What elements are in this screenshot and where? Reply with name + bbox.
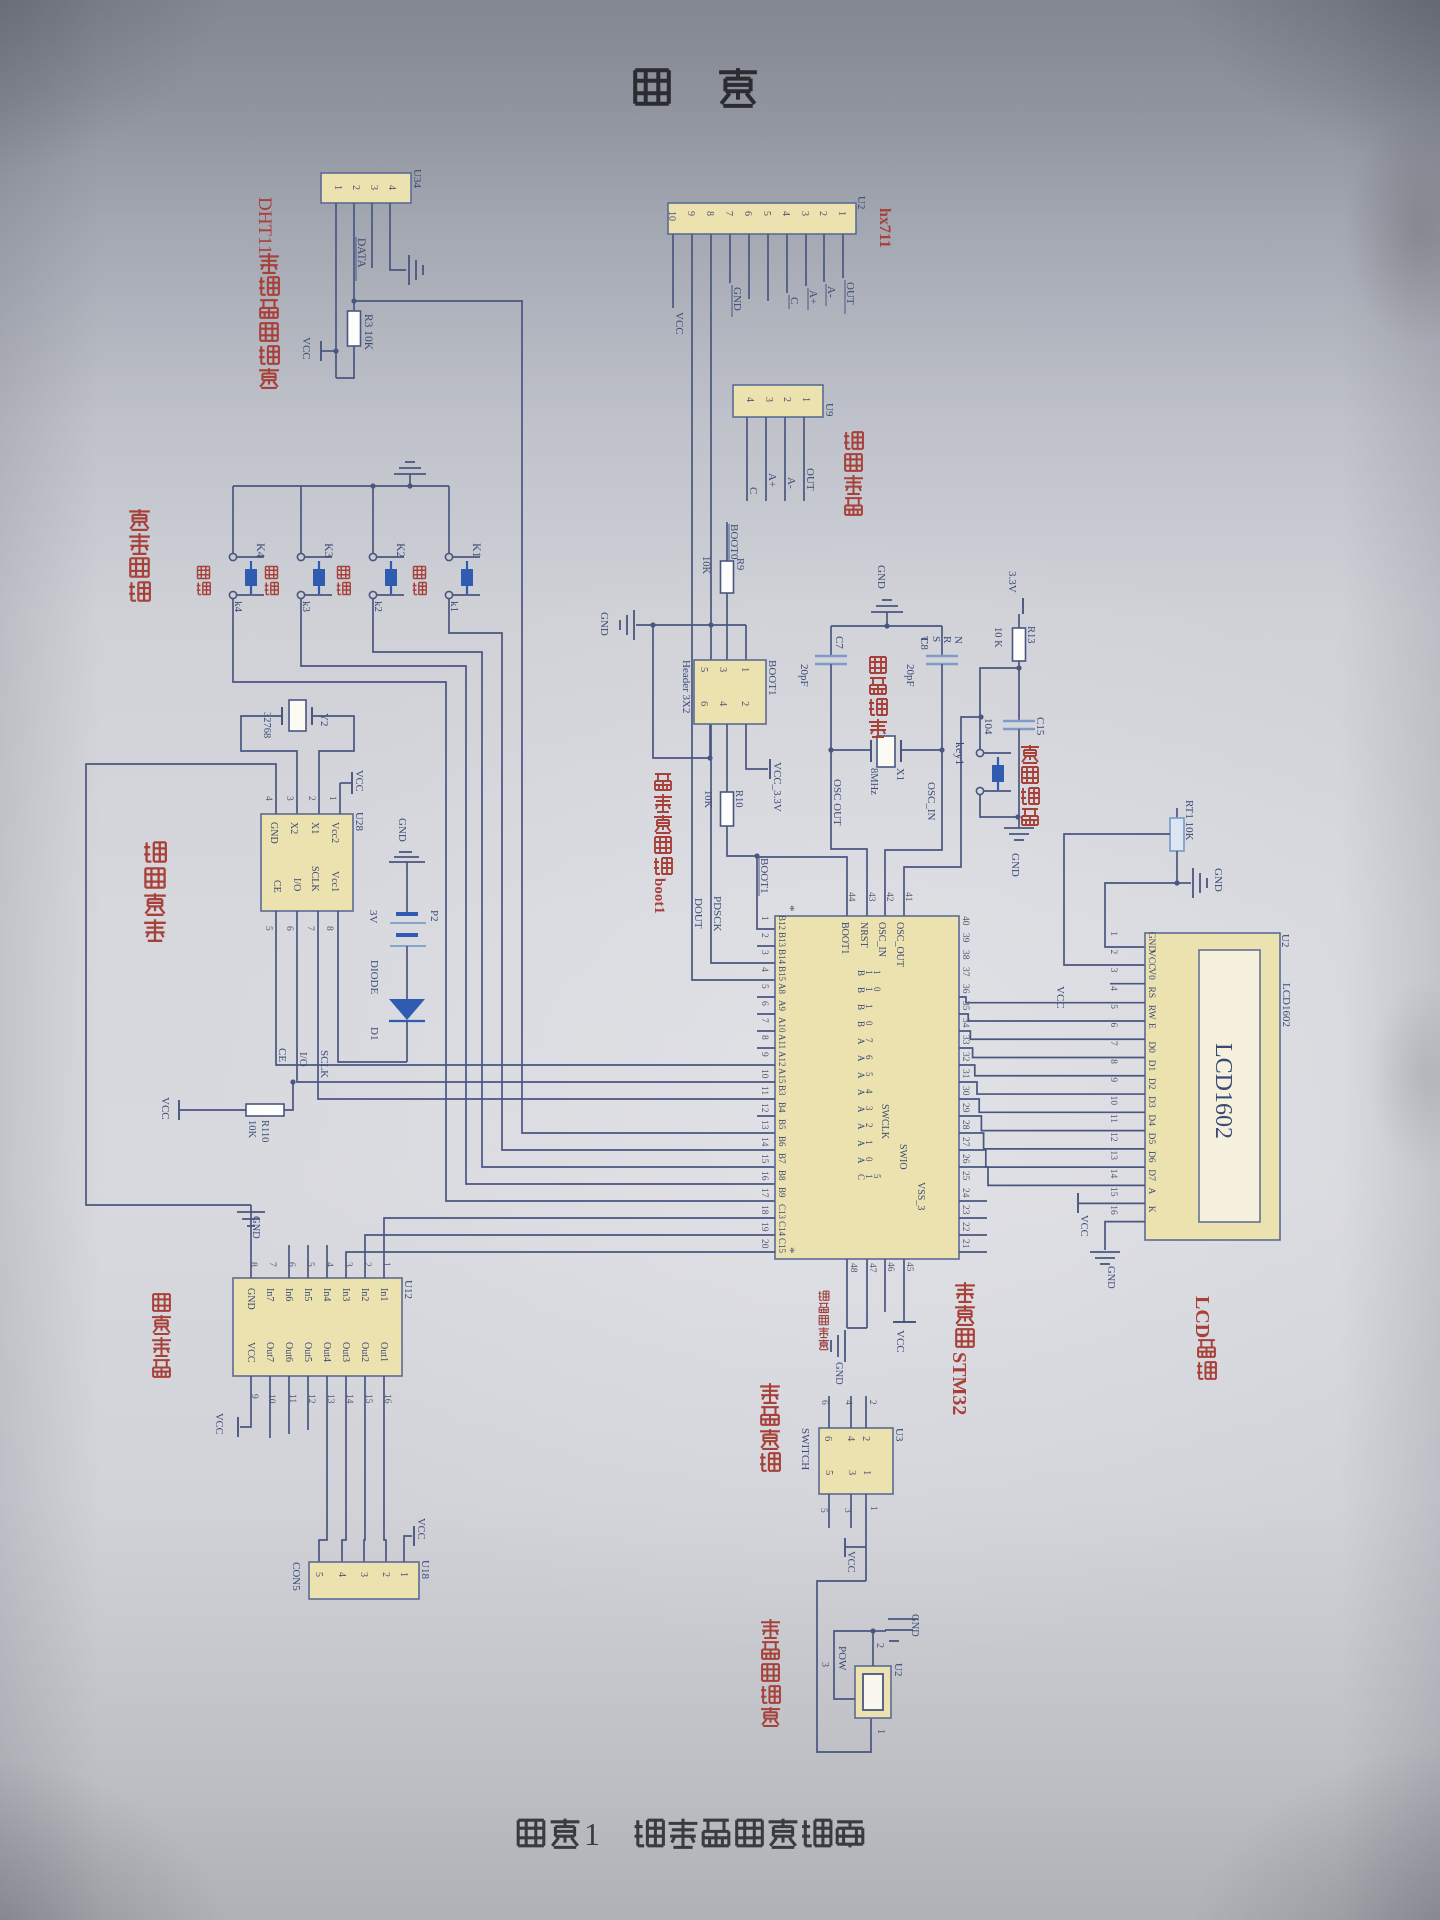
label power switch (red): [760, 1383, 780, 1403]
svg-text:17: 17: [759, 1188, 769, 1198]
svg-text:31: 31: [960, 1069, 970, 1079]
svg-text:Out4: Out4: [321, 1342, 332, 1362]
svg-text:6: 6: [819, 1400, 829, 1405]
LCD pin3 stub: [1110, 983, 1145, 985]
svg-text:2: 2: [380, 1572, 391, 1577]
svg-text:In1: In1: [378, 1288, 389, 1301]
svg-text:28: 28: [960, 1120, 970, 1130]
IC U1 STM32 MCU: [775, 916, 959, 1259]
svg-text:BOOT1: BOOT1: [839, 922, 850, 954]
svg-text:K2: K2: [394, 543, 408, 558]
svg-text:8: 8: [704, 211, 715, 216]
wires ULN outputs to CON5: [384, 1376, 386, 1562]
svg-text:VCC: VCC: [213, 1413, 224, 1435]
svg-text:1: 1: [864, 1140, 874, 1145]
wires ULN inputs to MCU: [384, 1218, 775, 1278]
svg-text:STM32: STM32: [948, 1352, 970, 1415]
diode D1: [389, 999, 425, 1020]
svg-text:1: 1: [584, 1816, 600, 1852]
svg-text:8MHz: 8MHz: [868, 768, 879, 795]
svg-text:42: 42: [884, 892, 894, 902]
svg-text:4: 4: [759, 967, 769, 972]
label scale port (red): [844, 432, 863, 449]
svg-text:20pF: 20pF: [904, 664, 916, 687]
svg-text:Out1: Out1: [378, 1342, 389, 1362]
svg-text:D2: D2: [1146, 1078, 1156, 1090]
svg-text:VCC: VCC: [415, 1518, 426, 1540]
wire BOOT1 to MCU pin44: [757, 857, 847, 916]
svg-text:C7: C7: [833, 636, 845, 649]
svg-text:PDSCK: PDSCK: [711, 896, 723, 932]
header 3X2 BOOT1: [694, 660, 766, 724]
svg-text:3: 3: [368, 185, 379, 190]
wire R10 to BOOT1 net / MCU pin1: [727, 826, 757, 856]
svg-text:A12: A12: [777, 1051, 787, 1067]
wire U34 pin1 VCC: [335, 203, 337, 378]
svg-text:boot1: boot1: [651, 878, 667, 914]
svg-text:1: 1: [332, 185, 343, 190]
svg-text:P2: P2: [428, 910, 440, 922]
svg-text:D7: D7: [1146, 1169, 1156, 1181]
svg-text:6: 6: [864, 1055, 874, 1060]
svg-text:3: 3: [358, 1572, 369, 1577]
svg-text:0: 0: [864, 1157, 874, 1162]
svg-text:47: 47: [867, 1263, 877, 1273]
svg-text:A-: A-: [785, 477, 797, 489]
svg-text:GND: GND: [833, 1362, 844, 1385]
svg-text:X1: X1: [894, 768, 905, 781]
wires MCU to LCD bus: [959, 997, 1145, 1003]
svg-text:S: S: [930, 636, 942, 642]
svg-text:U18: U18: [419, 1560, 431, 1579]
svg-text:10K: 10K: [702, 790, 713, 809]
svg-text:45: 45: [904, 1262, 914, 1272]
svg-text:In3: In3: [340, 1288, 351, 1301]
svg-text:16: 16: [1108, 1205, 1118, 1215]
svg-text:7: 7: [305, 926, 315, 931]
wires Y2 to DS1302 pins 2,3: [241, 716, 297, 814]
svg-text:8: 8: [324, 926, 334, 931]
resistor R10 10K: [726, 724, 728, 792]
wire DS1302 pin7 SCLK: [318, 911, 775, 1099]
svg-text:U2: U2: [1279, 934, 1291, 947]
svg-text:Out5: Out5: [302, 1342, 313, 1362]
svg-text:OSC OUT: OSC OUT: [831, 779, 843, 826]
svg-text:B8: B8: [777, 1170, 787, 1181]
svg-text:10 K: 10 K: [992, 627, 1003, 648]
svg-text:A9: A9: [777, 1000, 787, 1011]
wire RT1 bottom junction: [1176, 851, 1178, 883]
svg-text:A-: A-: [825, 286, 837, 298]
svg-text:4: 4: [263, 796, 273, 801]
svg-text:20pF: 20pF: [798, 664, 810, 687]
svg-text:1: 1: [759, 916, 769, 921]
svg-text:POW: POW: [836, 1646, 848, 1671]
svg-text:5: 5: [263, 926, 273, 931]
wire OSC_OUT to MCU pin43: [831, 750, 867, 916]
svg-text:GND: GND: [598, 612, 610, 636]
svg-text:2: 2: [874, 1643, 885, 1648]
svg-text:R110: R110: [259, 1120, 270, 1142]
svg-text:C15: C15: [777, 1238, 787, 1254]
svg-text:8: 8: [1108, 1059, 1118, 1064]
svg-text:0: 0: [872, 987, 882, 992]
svg-text:4: 4: [1108, 986, 1118, 991]
svg-text:LCD: LCD: [1191, 1296, 1213, 1338]
svg-text:RT1 10K: RT1 10K: [1183, 800, 1195, 841]
svg-text:U2: U2: [855, 196, 867, 209]
svg-text:K4: K4: [254, 543, 268, 558]
ground (reset): [1018, 817, 1020, 828]
svg-text:5: 5: [313, 1572, 324, 1577]
connector U9 (scale pan): [733, 385, 823, 417]
power VCC (U34 pin1): [322, 350, 336, 352]
label MCU STM32 (red): [955, 1282, 975, 1302]
svg-text:10K: 10K: [246, 1120, 257, 1139]
svg-text:key1: key1: [953, 742, 967, 765]
wire DS1302 pin4 GND long: [86, 764, 276, 1205]
wire U34 pin2 DATA net: [353, 203, 355, 310]
svg-text:B7: B7: [777, 1153, 787, 1164]
svg-text:38: 38: [960, 950, 970, 960]
svg-text:2: 2: [350, 185, 361, 190]
svg-text:10: 10: [266, 1394, 276, 1404]
svg-text:39: 39: [960, 933, 970, 943]
svg-text:U28: U28: [353, 812, 365, 831]
svg-text:3: 3: [343, 1262, 353, 1267]
svg-text:18: 18: [759, 1205, 769, 1215]
svg-text:2: 2: [759, 933, 769, 938]
wire DS1302 pin8 Vcc1 to battery: [338, 911, 407, 1062]
svg-text:B12: B12: [777, 915, 787, 930]
svg-text:27: 27: [960, 1137, 970, 1147]
svg-text:D3: D3: [1146, 1096, 1156, 1108]
svg-text:4: 4: [780, 211, 791, 216]
svg-text:DATA: DATA: [355, 238, 367, 268]
push button K1: [448, 486, 450, 553]
svg-text:5: 5: [872, 1174, 882, 1179]
svg-text:15: 15: [759, 1154, 769, 1164]
svg-text:VSS_3: VSS_3: [915, 1182, 926, 1210]
wire ULN pin9 VCC: [240, 1376, 251, 1427]
label boot mode (red): [655, 774, 671, 790]
svg-text:hx711: hx711: [876, 208, 893, 248]
svg-text:X1: X1: [309, 822, 320, 834]
svg-text:2: 2: [860, 1436, 871, 1441]
svg-text:C14: C14: [777, 1221, 787, 1237]
svg-text:BOOT1: BOOT1: [766, 660, 778, 695]
svg-text:RS: RS: [1146, 987, 1156, 999]
svg-text:2: 2: [781, 397, 792, 402]
svg-text:Out7: Out7: [264, 1342, 275, 1362]
label reset circuit (red): [1021, 745, 1039, 763]
svg-text:D4: D4: [1146, 1114, 1156, 1126]
U3 top stubs: [865, 1396, 867, 1428]
svg-text:D5: D5: [1146, 1133, 1156, 1145]
svg-text:5: 5: [305, 1262, 315, 1267]
svg-text:23: 23: [960, 1205, 970, 1215]
svg-text:D0: D0: [1146, 1041, 1156, 1053]
svg-text:T: T: [918, 636, 930, 643]
LCD pin16 ground: [1105, 1222, 1145, 1250]
svg-text:4: 4: [864, 1089, 874, 1094]
svg-text:24: 24: [960, 1188, 970, 1198]
svg-text:1: 1: [327, 796, 337, 801]
svg-text:B4: B4: [777, 1102, 787, 1113]
svg-text:A11: A11: [777, 1034, 787, 1049]
svg-text:6: 6: [759, 1001, 769, 1006]
wire DS1302 pin1 VCC: [339, 783, 341, 814]
svg-text:46: 46: [885, 1262, 895, 1272]
wire U34 pin4 to ground: [390, 203, 406, 270]
svg-text:SWCLK: SWCLK: [879, 1104, 890, 1140]
svg-text:44: 44: [846, 892, 856, 902]
svg-text:OSC_IN: OSC_IN: [876, 922, 887, 957]
ground (U34 pin4): [408, 255, 410, 285]
svg-text:CON5: CON5: [290, 1562, 302, 1591]
key bus + ground: [233, 485, 449, 487]
svg-text:29: 29: [960, 1103, 970, 1113]
svg-text:SCLK: SCLK: [309, 866, 320, 892]
power VCC (switch): [846, 1546, 866, 1548]
svg-text:GND: GND: [396, 818, 408, 842]
connector U2 POW: [855, 1666, 891, 1718]
svg-text:5: 5: [761, 211, 772, 216]
svg-text:1: 1: [739, 667, 750, 672]
svg-text:VCC_3.3V: VCC_3.3V: [771, 762, 783, 812]
svg-text:2: 2: [867, 1400, 877, 1405]
svg-text:19: 19: [759, 1222, 769, 1232]
svg-text:8: 8: [248, 1262, 258, 1267]
svg-text:SWIO: SWIO: [897, 1144, 908, 1170]
label stepper motor (red): [153, 1294, 170, 1311]
U3 bottom stubs: [850, 1494, 852, 1528]
svg-text:B15: B15: [777, 966, 787, 982]
svg-text:K: K: [1146, 1206, 1156, 1213]
svg-text:3: 3: [799, 211, 810, 216]
svg-text:8: 8: [759, 1035, 769, 1040]
ground (MCU): [844, 1330, 846, 1362]
LCD1602 module U2: [1145, 933, 1280, 1240]
svg-text:CE: CE: [276, 1048, 288, 1062]
svg-text:4: 4: [336, 1572, 347, 1577]
svg-text:C13: C13: [777, 1204, 787, 1220]
svg-text:In5: In5: [302, 1288, 313, 1301]
ground (RT1): [1177, 882, 1191, 884]
ground (crystal): [871, 611, 903, 613]
label clock chip (red): [144, 842, 166, 861]
svg-text:3: 3: [763, 397, 774, 402]
wire to LCD pin1: [1105, 883, 1177, 947]
svg-text:5: 5: [698, 667, 709, 672]
svg-text:A8: A8: [777, 983, 787, 994]
svg-text:43: 43: [866, 892, 876, 902]
svg-text:B14: B14: [777, 949, 787, 965]
crystal X1 8MHz: [828, 747, 833, 752]
svg-text:1: 1: [1108, 931, 1118, 936]
svg-text:7: 7: [1108, 1041, 1118, 1046]
svg-text:3: 3: [819, 1662, 830, 1667]
svg-text:N: N: [952, 636, 964, 644]
svg-text:104: 104: [982, 718, 994, 735]
wire key1 net to MCU pin41: [904, 717, 981, 916]
wire U3 pin1 to POW loop: [865, 1528, 867, 1581]
LCD pin15 backlight VCC: [1077, 1193, 1079, 1213]
wire header pin2 to VCC_3.3V: [746, 724, 768, 769]
svg-text:6: 6: [286, 1262, 296, 1267]
svg-text:48: 48: [848, 1263, 858, 1273]
svg-text:1: 1: [836, 211, 847, 216]
svg-text:5: 5: [864, 1072, 874, 1077]
svg-text:4: 4: [324, 1262, 334, 1267]
svg-text:C: C: [788, 297, 800, 304]
svg-text:15: 15: [1108, 1187, 1118, 1197]
svg-text:R10: R10: [733, 790, 744, 808]
svg-text:13: 13: [759, 1120, 769, 1130]
push button K2: [372, 486, 374, 553]
battery P2 3V: [396, 912, 418, 916]
svg-text:B3: B3: [777, 1085, 787, 1096]
U9 pin wires with labels OUT A- A+ C: [803, 417, 805, 501]
wire RT1 left to VCC stub: [1064, 834, 1170, 965]
svg-text:3: 3: [842, 1508, 852, 1513]
svg-text:22: 22: [960, 1222, 970, 1232]
svg-text:2: 2: [1108, 949, 1118, 954]
svg-text:20: 20: [759, 1239, 769, 1249]
svg-text:B13: B13: [777, 932, 787, 948]
wire MCU pins47-48 ground: [866, 1259, 868, 1328]
svg-text:V0: V0: [1146, 968, 1156, 980]
svg-text:I/O: I/O: [291, 878, 302, 891]
net label DATA: [355, 237, 357, 281]
svg-text:7: 7: [759, 1018, 769, 1023]
svg-text:3: 3: [759, 950, 769, 955]
svg-text:3V: 3V: [367, 910, 379, 924]
svg-text:OSC_IN: OSC_IN: [925, 782, 937, 821]
svg-text:6: 6: [698, 701, 709, 706]
svg-text:7: 7: [723, 211, 734, 216]
svg-text:B5: B5: [777, 1119, 787, 1130]
svg-text:5: 5: [818, 1508, 828, 1513]
svg-text:5: 5: [823, 1470, 834, 1475]
svg-text:BOOT0: BOOT0: [728, 524, 740, 560]
svg-text:3: 3: [1108, 968, 1118, 973]
switch U3: [819, 1428, 893, 1494]
svg-text:DOUT: DOUT: [692, 898, 704, 929]
wire gnd to header pin6: [653, 625, 710, 758]
wire R13 bottom junction: [1018, 661, 1020, 721]
svg-text:40: 40: [960, 916, 970, 926]
svg-text:21: 21: [960, 1239, 970, 1249]
svg-text:3: 3: [864, 1106, 874, 1111]
connector U34 (DHT11): [321, 173, 411, 203]
wire DS1302 pin5 CE: [276, 911, 775, 1065]
resistor R110 10K: [246, 1104, 284, 1116]
svg-text:U9: U9: [823, 403, 835, 417]
svg-text:37: 37: [960, 967, 970, 977]
svg-text:CE: CE: [271, 880, 282, 893]
svg-text:D6: D6: [1146, 1151, 1156, 1163]
svg-text:VCC: VCC: [1146, 950, 1156, 970]
svg-text:SWITCH: SWITCH: [799, 1428, 811, 1470]
resistor R3 10K: [348, 311, 361, 346]
svg-text:B9: B9: [777, 1187, 787, 1198]
svg-text:14: 14: [1108, 1169, 1118, 1179]
svg-text:VCC: VCC: [845, 1551, 856, 1573]
svg-text:VCC: VCC: [300, 337, 312, 360]
svg-text:1: 1: [398, 1572, 409, 1577]
IC U28 DS1302: [261, 814, 353, 911]
svg-text:GND: GND: [875, 565, 887, 589]
svg-text:0: 0: [864, 1021, 874, 1026]
svg-text:C15: C15: [1034, 717, 1046, 736]
svg-text:4: 4: [717, 701, 728, 707]
svg-text:9: 9: [1108, 1077, 1118, 1082]
wire OSC_IN to MCU pin42: [885, 750, 942, 916]
svg-text:11: 11: [1108, 1114, 1118, 1123]
wire hx711 pin10 VCC: [672, 234, 674, 308]
wire hx711 pin9 DOUT long: [692, 234, 775, 980]
svg-text:R: R: [941, 636, 953, 644]
wire ULN GND to ground bus: [250, 1205, 252, 1278]
svg-text:10: 10: [666, 211, 677, 221]
svg-text:7: 7: [864, 1038, 874, 1043]
svg-text:In7: In7: [264, 1288, 275, 1301]
svg-text:2: 2: [362, 1262, 372, 1267]
svg-text:9: 9: [685, 211, 696, 216]
svg-text:Out2: Out2: [359, 1342, 370, 1362]
svg-text:BOOT1: BOOT1: [758, 858, 770, 893]
svg-text:41: 41: [903, 892, 913, 902]
svg-text:6: 6: [284, 926, 294, 931]
svg-text:In2: In2: [359, 1288, 370, 1301]
hx711 pin wires + net labels OUT A- A+ C GND: [842, 234, 844, 278]
svg-text:4: 4: [386, 185, 397, 190]
wire POW outer loop: [817, 1581, 871, 1752]
svg-text:10: 10: [1108, 1096, 1118, 1106]
ground (header area): [633, 610, 635, 640]
svg-text:11: 11: [759, 1086, 769, 1095]
wire U34 pin3 stub: [371, 203, 373, 268]
svg-text:4: 4: [845, 1436, 856, 1442]
connector U2 (hx711): [668, 203, 856, 234]
svg-text:1: 1: [864, 1004, 874, 1009]
svg-text:DHT11: DHT11: [254, 197, 275, 254]
wire DATA to MCU (long): [351, 298, 356, 303]
svg-text:U12: U12: [402, 1280, 414, 1299]
ground (POW): [873, 1630, 886, 1632]
connector U18 CON5: [309, 1562, 419, 1599]
wire R3 bottom loop to pin1: [336, 346, 354, 378]
svg-text:1: 1: [875, 1729, 886, 1734]
svg-text:1: 1: [800, 397, 811, 402]
svg-text:K1: K1: [470, 543, 484, 558]
svg-text:Vcc1: Vcc1: [329, 871, 340, 892]
svg-text:I/O: I/O: [297, 1052, 309, 1067]
svg-text:OUT: OUT: [804, 468, 816, 491]
svg-text:9: 9: [759, 1052, 769, 1057]
svg-text:D1: D1: [1146, 1060, 1156, 1072]
svg-text:16: 16: [759, 1171, 769, 1181]
svg-text:14: 14: [759, 1137, 769, 1147]
ground (ULN/DS1302): [237, 1211, 265, 1213]
svg-text:D1: D1: [368, 1027, 380, 1040]
svg-text:OSC_OUT: OSC_OUT: [894, 922, 905, 967]
svg-text:5: 5: [1108, 1004, 1118, 1009]
svg-text:3: 3: [717, 667, 728, 672]
caption appendix 1 system hardware schematic: [518, 1820, 544, 1846]
svg-text:VCC: VCC: [1078, 1215, 1089, 1237]
